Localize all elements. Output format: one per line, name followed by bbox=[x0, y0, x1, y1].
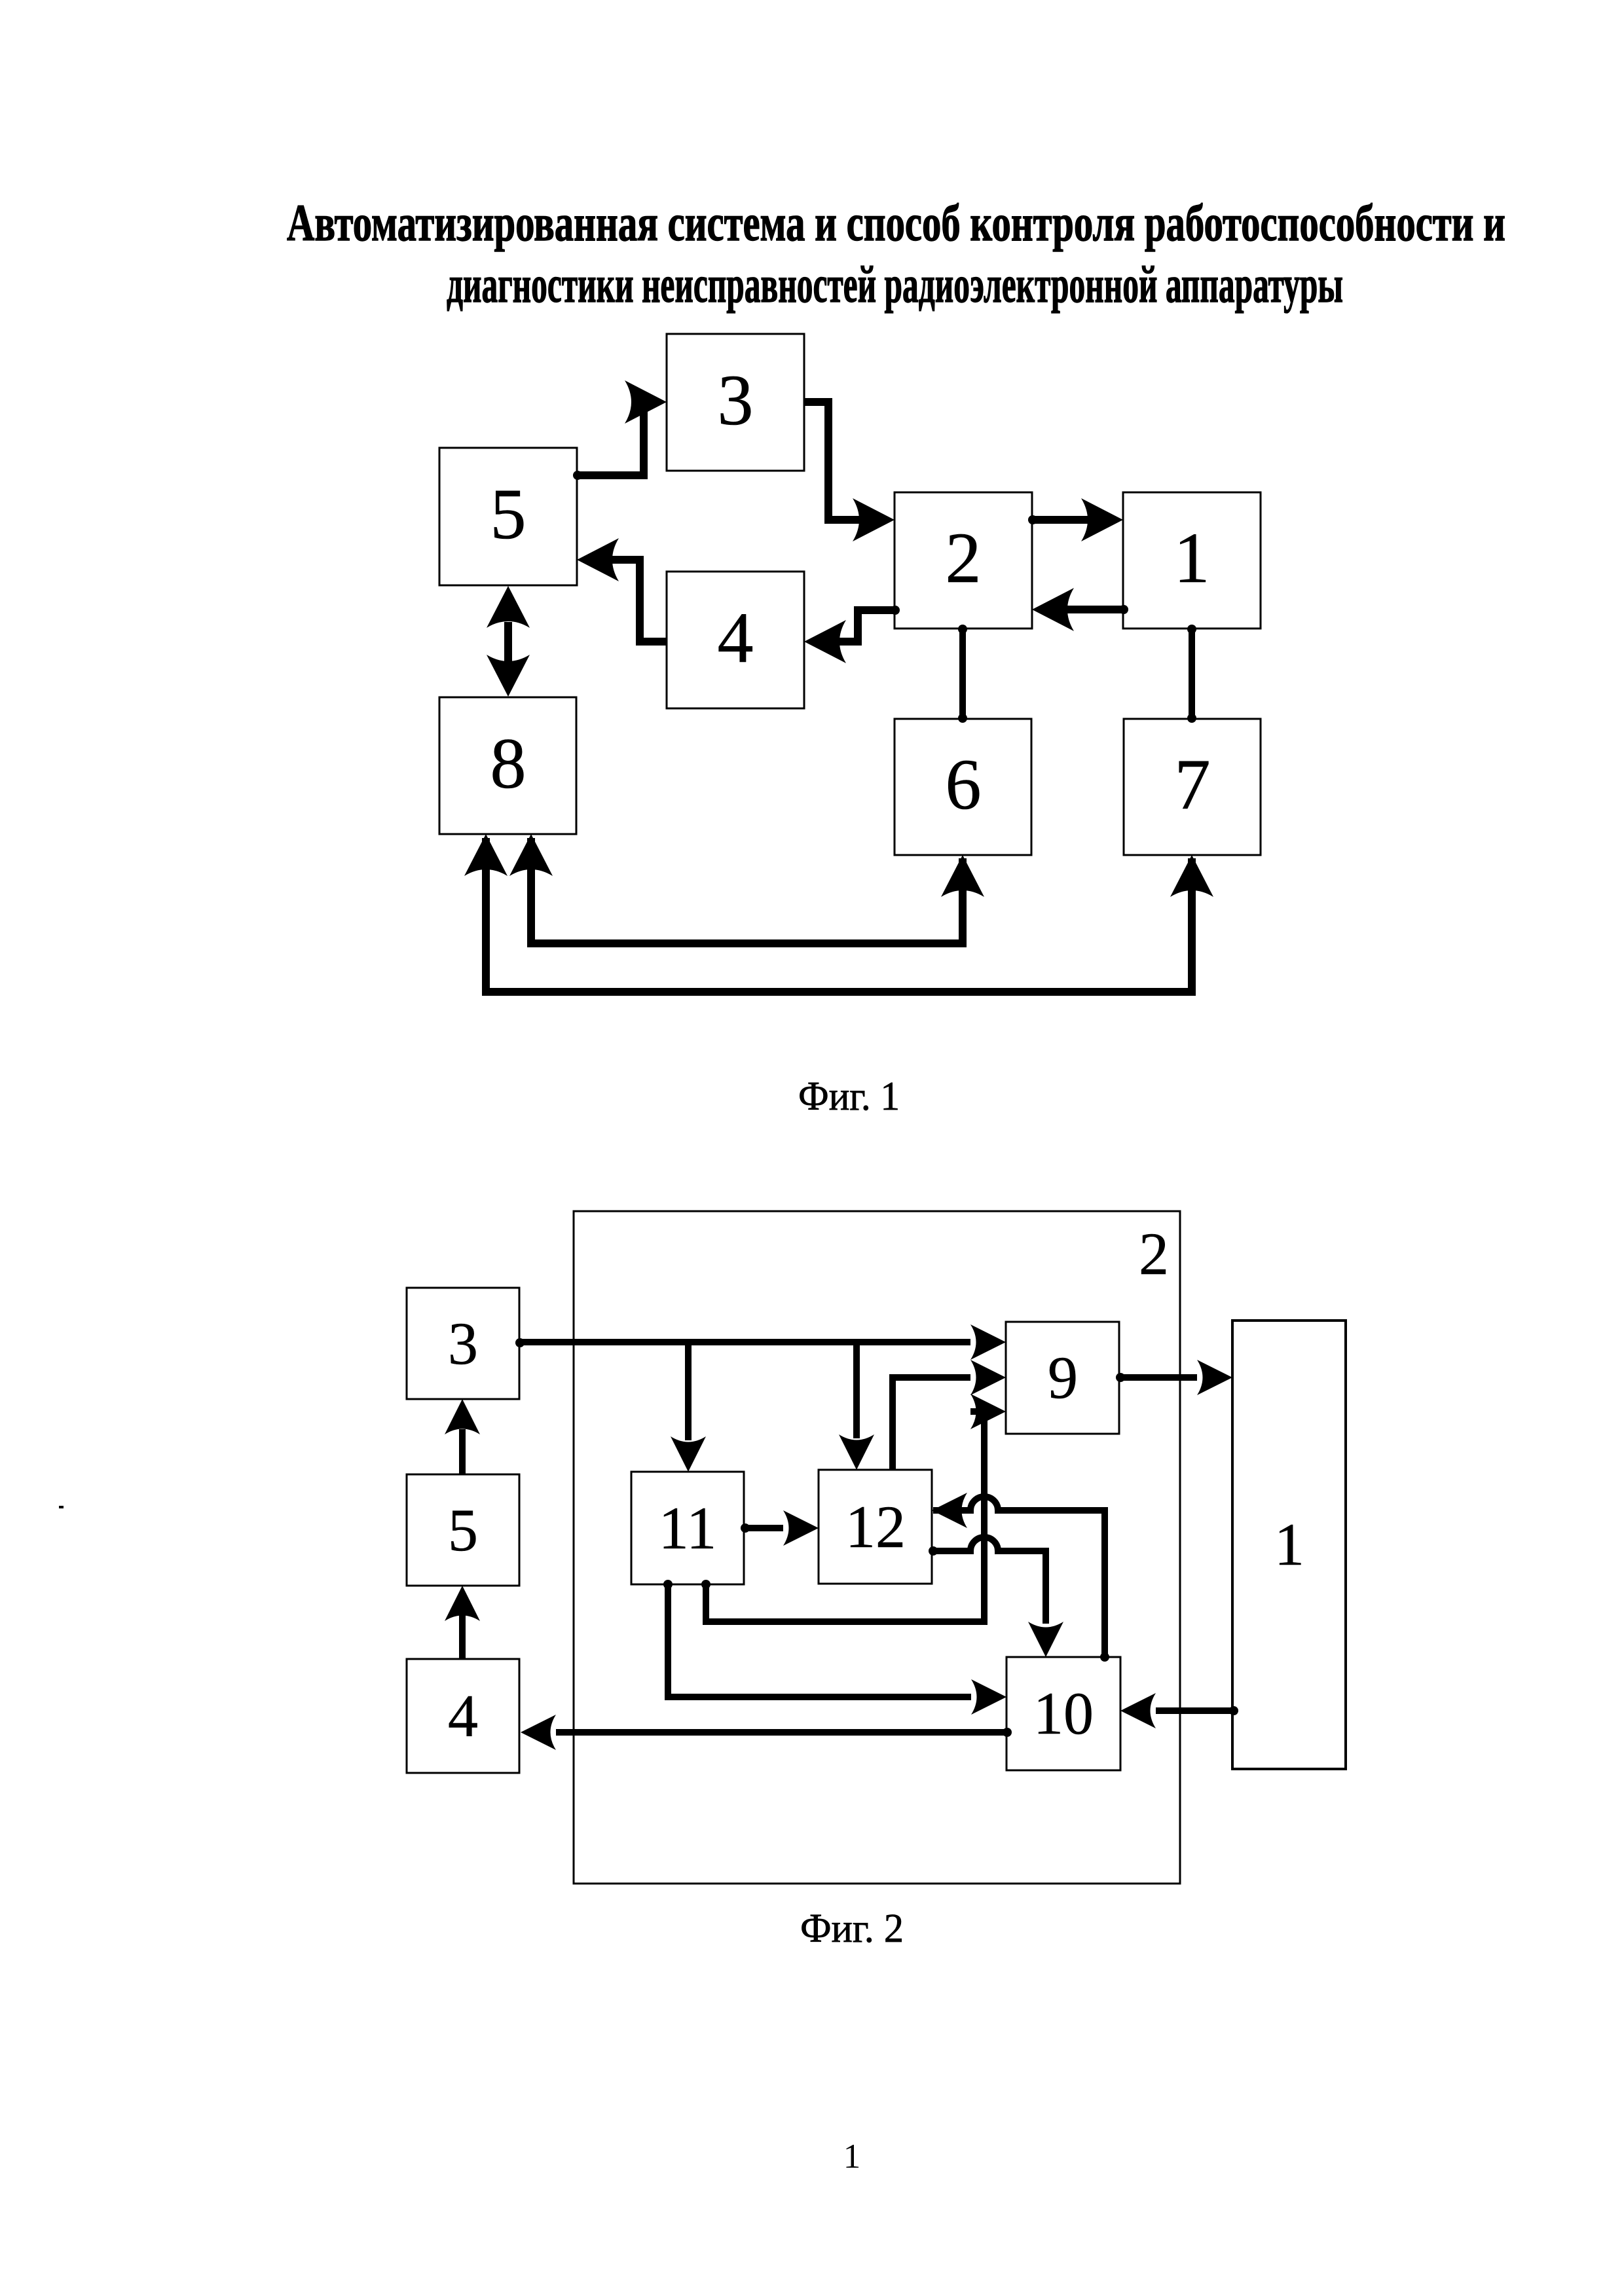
svg-text:9: 9 bbox=[1048, 1344, 1078, 1411]
wire 1 to 7 (fig.1) bbox=[1189, 629, 1195, 719]
svg-text:Фиг. 1: Фиг. 1 bbox=[798, 1074, 900, 1119]
wire 2 to 4 (fig.1) bbox=[804, 610, 895, 663]
svg-text:10: 10 bbox=[1033, 1680, 1094, 1747]
wire 10 to 12 with hop (fig.2) bbox=[932, 1493, 1105, 1657]
svg-text:7: 7 bbox=[1175, 744, 1211, 824]
svg-text:5: 5 bbox=[490, 474, 526, 554]
title line 1 bbox=[287, 195, 1505, 252]
block 5 (fig.1) bbox=[439, 448, 577, 585]
stray speck bbox=[59, 1506, 64, 1508]
page number bbox=[843, 2138, 861, 2176]
svg-text:1: 1 bbox=[1274, 1511, 1304, 1578]
block 9 (fig.2) bbox=[1006, 1322, 1119, 1434]
block 2 (fig.1) bbox=[895, 492, 1032, 629]
svg-text:3: 3 bbox=[718, 360, 754, 440]
wire 4 to 5 (fig.1) bbox=[577, 538, 667, 642]
wire 3 to 2 (fig.1) bbox=[804, 402, 895, 541]
junction dots (fig.2) bbox=[515, 1338, 1238, 1737]
wire 8 to 6 bottom loop (fig.1) bbox=[509, 834, 984, 943]
wire 11 to 10 (fig.2) bbox=[668, 1584, 1006, 1715]
svg-text:3: 3 bbox=[448, 1310, 478, 1377]
block 8 (fig.1) bbox=[439, 697, 576, 834]
block 5 (fig.2) bbox=[407, 1474, 519, 1586]
block 6 (fig.1) bbox=[895, 719, 1031, 855]
wire branch to 12 (fig.2) bbox=[839, 1342, 874, 1470]
wire 9 to 1 (fig.2) bbox=[1119, 1360, 1232, 1395]
wire 8 to 7 bottom loop (fig.1) bbox=[464, 834, 1213, 992]
outer block 2 (fig.2) bbox=[574, 1211, 1180, 1884]
wire 5 to 3 (fig.2) bbox=[445, 1399, 480, 1474]
caption Fig.1 bbox=[798, 1074, 900, 1119]
block 3 (fig.1) bbox=[667, 334, 804, 471]
block 4 (fig.2) bbox=[407, 1659, 519, 1773]
svg-text:Автоматизированная система и с: Автоматизированная система и способ конт… bbox=[287, 195, 1505, 252]
wire 5 to 3 (fig.1) bbox=[577, 380, 667, 475]
wire 11 bottom to 9 (fig.2) bbox=[706, 1394, 1006, 1622]
block 7 (fig.1) bbox=[1124, 719, 1261, 855]
svg-text:1: 1 bbox=[1174, 518, 1210, 598]
wire branch to 11 (fig.2) bbox=[671, 1342, 706, 1472]
wire 1 to 10 (fig.2) bbox=[1120, 1693, 1232, 1728]
title line 2 bbox=[447, 257, 1343, 314]
wire 12 to 10 with hop (fig.2) bbox=[932, 1537, 1063, 1657]
block 1 (fig.1) bbox=[1123, 492, 1261, 629]
svg-text:Фиг. 2: Фиг. 2 bbox=[800, 1906, 904, 1951]
block 4 (fig.1) bbox=[667, 572, 804, 708]
svg-text:4: 4 bbox=[718, 598, 754, 678]
svg-text:6: 6 bbox=[946, 744, 982, 824]
wire 12 top to 9 (fig.2) bbox=[893, 1360, 1006, 1470]
svg-text:4: 4 bbox=[448, 1683, 478, 1749]
svg-text:11: 11 bbox=[659, 1495, 717, 1561]
wire 1 to 2 (fig.1) bbox=[1032, 588, 1123, 631]
wire 3 to 9 main (fig.2) bbox=[519, 1324, 1006, 1360]
block 1 (fig.2) bbox=[1232, 1321, 1346, 1769]
wire 11 to 12 (fig.2) bbox=[744, 1510, 819, 1546]
wire 2 to 1 (fig.1) bbox=[1032, 498, 1123, 541]
wire 10 to 4 (fig.2) bbox=[521, 1715, 1008, 1750]
svg-text:5: 5 bbox=[448, 1497, 478, 1563]
wire 4 to 5 (fig.2) bbox=[445, 1586, 480, 1659]
wire 2 to 6 (fig.1) bbox=[959, 629, 966, 719]
svg-text:12: 12 bbox=[845, 1493, 906, 1560]
svg-text:2: 2 bbox=[1139, 1220, 1169, 1287]
block 11 (fig.2) bbox=[631, 1472, 744, 1584]
svg-text:8: 8 bbox=[490, 723, 526, 803]
junction dots (fig.1) bbox=[573, 471, 1196, 723]
svg-text:1: 1 bbox=[843, 2138, 861, 2176]
block 10 (fig.2) bbox=[1006, 1657, 1120, 1770]
wire 5 to 8 bidirectional (fig.1) bbox=[487, 586, 530, 697]
svg-text:диагностики неисправностей рад: диагностики неисправностей радиоэлектрон… bbox=[447, 257, 1343, 314]
caption Fig.2 bbox=[800, 1906, 904, 1951]
block 12 (fig.2) bbox=[819, 1470, 932, 1584]
svg-text:2: 2 bbox=[946, 518, 982, 598]
block 3 (fig.2) bbox=[407, 1288, 519, 1399]
